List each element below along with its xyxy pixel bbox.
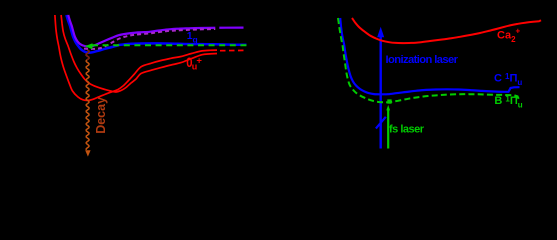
right panel: green dot marker on B state (387, 99, 391, 103)
left panel: blue potential curve (dissociative state) (66, 15, 246, 53)
right panel: ionization laser arrow shaft (blue, vertical) (380, 37, 382, 149)
svg-text:Ca2+: Ca2+ (497, 27, 521, 44)
left panel: orange wavy decay arrow shaft (86, 50, 89, 150)
svg-text:fs laser: fs laser (389, 124, 425, 136)
svg-text:Ionization laser: Ionization laser (386, 54, 459, 66)
right panel: fs laser arrow shaft (green, vertical) (387, 110, 389, 149)
right panel: diagonal tick across ionization arrow (376, 117, 386, 129)
right panel: Ca2+ ion ground state curve (red) (352, 18, 541, 43)
right panel: ionization laser arrowhead (up) (377, 27, 384, 37)
svg-text:+: + (196, 56, 202, 67)
right panel: B 1Pi_u state curve (green dashed) (338, 18, 519, 102)
left panel: potential curve 0u+ deep well (red, lower asymptote) (55, 15, 217, 100)
left panel: purple potential curve 1g upper state (68, 15, 243, 46)
svg-text:C 1Πu: C 1Πu (494, 72, 522, 87)
left panel: green dashed dissociation level line (92, 44, 247, 46)
svg-text:1g: 1g (187, 30, 198, 45)
left panel: green arrowhead pointing left (dissociation) (85, 43, 93, 49)
left panel: magenta dashed potential curve (84, 29, 218, 49)
left panel: potential curve 0u+ shallow well (red) (61, 15, 217, 92)
left panel: red dashed continuation of upper 0u+ asymptote (220, 49, 244, 51)
left panel: dark top of wavy decay arrow (86, 50, 89, 60)
right panel: fs laser arrowhead (up) (386, 105, 390, 111)
left panel: label 0u+ (186, 55, 202, 72)
svg-text:Decay: Decay (94, 97, 108, 134)
right panel: C 1Pi_u state curve (blue) (340, 18, 519, 94)
left panel: arrowhead of decay arrow pointing down (85, 150, 90, 156)
gap break in purple asymptote (215, 25, 219, 32)
